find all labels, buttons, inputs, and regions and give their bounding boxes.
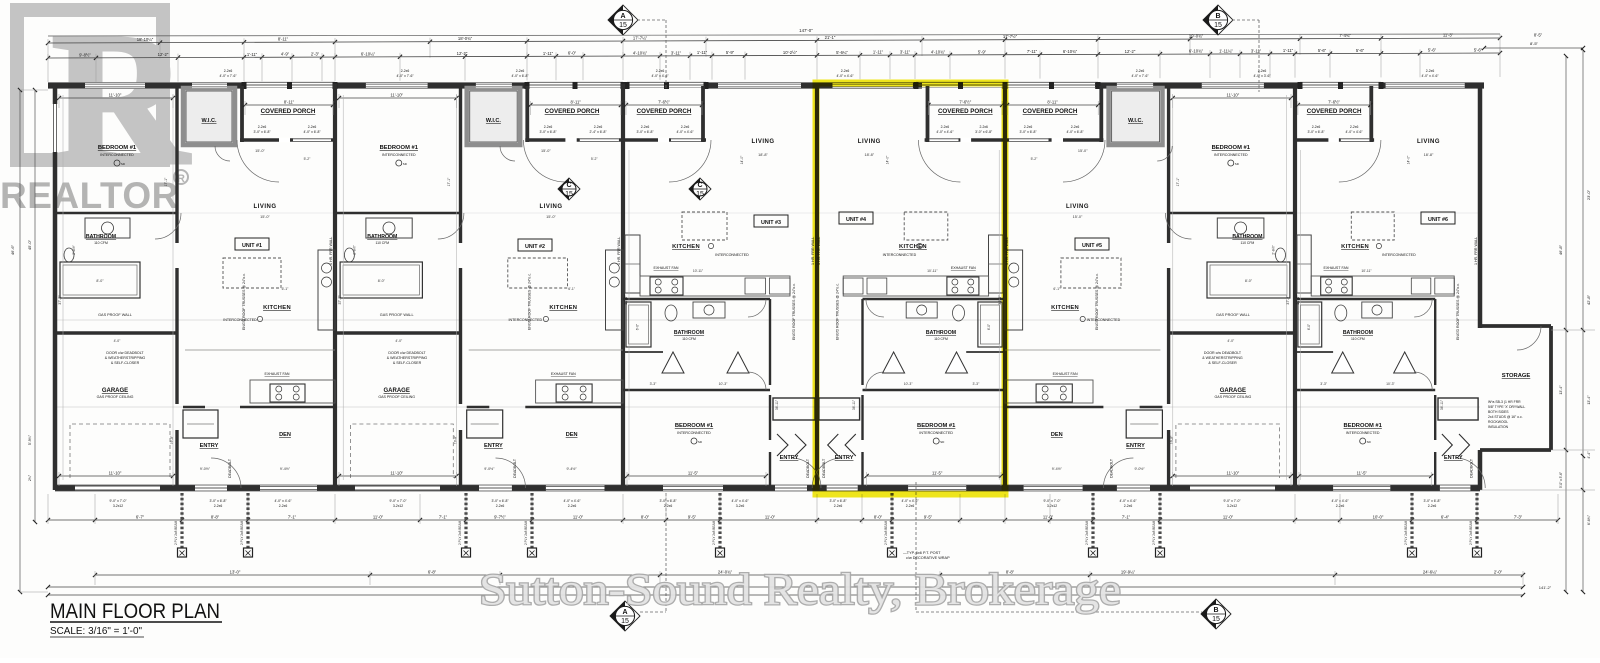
wall: party wall unit4|unit5 [1003, 84, 1007, 491]
svg-text:36'-11": 36'-11" [1440, 399, 1444, 410]
svg-text:8'-5": 8'-5" [1534, 32, 1543, 37]
svg-text:COVERED PORCH: COVERED PORCH [545, 108, 600, 115]
svg-text:9'-0" x 7'-0": 9'-0" x 7'-0" [389, 499, 407, 503]
svg-text:GARAGE: GARAGE [384, 388, 410, 394]
svg-text:13'-4": 13'-4" [1587, 395, 1591, 405]
svg-text:45'-0": 45'-0" [27, 239, 32, 250]
svg-text:2-2x6: 2-2x6 [1428, 504, 1437, 508]
svg-text:110 CFM: 110 CFM [682, 337, 696, 341]
svg-text:ENG'D ROOF TRUSSES @ 24"o.c.: ENG'D ROOF TRUSSES @ 24"o.c. [1095, 273, 1099, 330]
dim: unit1 bedroom width [59, 97, 173, 99]
wall: unit1 garage front wall (gas proof) [55, 331, 177, 334]
svg-text:10'-3": 10'-3" [904, 382, 913, 386]
wall: unit3 porch front wall with door+window [623, 138, 706, 142]
svg-text:11'-10": 11'-10" [390, 471, 403, 476]
svg-text:2-2x6: 2-2x6 [841, 69, 850, 73]
svg-text:3'-0" x 6'-8": 3'-0" x 6'-8" [636, 130, 654, 134]
wall: unit5 porch front wall with door and window [1005, 138, 1103, 142]
svg-text:ENG'D ROOF TRUSSES @ 24"o.c.: ENG'D ROOF TRUSSES @ 24"o.c. [792, 283, 796, 340]
door swing: unit4 rear entry door [812, 458, 842, 488]
svg-text:4'-0" x 4'-6": 4'-0" x 4'-6" [1119, 499, 1137, 503]
section marker A (top) [608, 5, 638, 35]
svg-text:GAS PROOF WALL: GAS PROOF WALL [380, 313, 414, 317]
wall: left exterior [53, 84, 58, 491]
window: unit1 den rear window [260, 485, 317, 490]
svg-text:9'-0½": 9'-0½" [200, 467, 211, 471]
svg-text:4'-0" x 4'-6": 4'-0" x 4'-6" [936, 130, 954, 134]
svg-text:147'-0": 147'-0" [799, 28, 813, 33]
dim: unit2 garage width [339, 475, 457, 477]
svg-text:1 HR. FRR WALL: 1 HR. FRR WALL [617, 237, 621, 265]
fixture: unit5 vanity sink [1217, 218, 1264, 238]
svg-text:LIVING: LIVING [1066, 204, 1089, 210]
svg-text:INTERCONNECTED: INTERCONNECTED [223, 318, 257, 322]
door swing: unit6 front door [1339, 140, 1381, 182]
fixture: unit3 bathtub (vertical at party wall) [626, 302, 651, 347]
svg-text:KITCHEN: KITCHEN [549, 305, 577, 311]
room label: unit5 unit number box [1075, 238, 1109, 250]
svg-text:14'-0": 14'-0" [740, 155, 744, 164]
svg-text:6'-10¼": 6'-10¼" [361, 51, 376, 56]
svg-text:19'-8": 19'-8" [170, 435, 174, 444]
svg-text:B: B [1213, 607, 1218, 614]
svg-text:4'-0" x 4'-6": 4'-0" x 4'-6" [563, 499, 581, 503]
svg-text:2-2x6: 2-2x6 [641, 125, 650, 129]
svg-text:2 PLY 2x8 BEAM: 2 PLY 2x8 BEAM [884, 520, 888, 545]
svg-text:3'-0" x 6'-8": 3'-0" x 6'-8" [253, 130, 271, 134]
closet: unit6 bedroom closets jagged [1438, 398, 1478, 420]
svg-text:4'-10¾": 4'-10¾" [633, 51, 648, 56]
fixture: unit4 kitchen island (dashed) [904, 212, 948, 240]
svg-text:18'-8": 18'-8" [1424, 153, 1434, 157]
dim: right vertical line (outer) [1582, 50, 1584, 592]
dim line B (top) [48, 53, 1500, 58]
svg-text:2-2x6: 2-2x6 [941, 125, 950, 129]
svg-text:3-2x6: 3-2x6 [736, 504, 745, 508]
svg-text:STORAGE: STORAGE [1502, 373, 1531, 379]
svg-text:BEDROOM #1: BEDROOM #1 [675, 423, 714, 429]
svg-text:5'-9¼": 5'-9¼" [28, 434, 32, 445]
svg-text:1'-11": 1'-11" [247, 52, 258, 57]
closet W.I.C. unit1 [183, 88, 235, 145]
post: porch lintel end posts [242, 82, 247, 89]
fixture: unit6 toilet [1335, 305, 1347, 321]
svg-text:2-2x6: 2-2x6 [979, 125, 988, 129]
svg-text:8'-0": 8'-0" [641, 515, 650, 520]
window: unit6 living front window [1386, 83, 1465, 88]
post: porch lintel end posts [625, 82, 630, 89]
svg-text:KITCHEN: KITCHEN [263, 305, 291, 311]
svg-text:11'-0": 11'-0" [1043, 515, 1054, 520]
svg-text:EXHAUST FAN: EXHAUST FAN [1324, 266, 1349, 270]
svg-text:COVERED PORCH: COVERED PORCH [1023, 108, 1078, 115]
svg-text:2-2x6: 2-2x6 [544, 125, 553, 129]
svg-text:10'-3": 10'-3" [719, 382, 728, 386]
svg-text:17'-1": 17'-1" [447, 177, 451, 186]
dim: left vertical line (inner) [34, 90, 36, 522]
fixture: unit3 range [650, 277, 683, 295]
svg-text:2-2x6: 2-2x6 [664, 504, 673, 508]
svg-text:2-2x6: 2-2x6 [1312, 125, 1321, 129]
post: porch lintel end posts [914, 82, 919, 89]
wall: unit5 garage front wall (gas proof) [1169, 331, 1295, 334]
svg-text:7'-3": 7'-3" [1514, 515, 1523, 520]
fixture: unit3 kitchen island (dashed) [682, 212, 727, 240]
svg-text:2'-0": 2'-0" [1494, 570, 1503, 575]
dim: unit4 interior verticals [998, 150, 1000, 480]
svg-text:DEADBOLT: DEADBOLT [228, 458, 232, 478]
svg-text:10'-0": 10'-0" [1373, 515, 1384, 520]
svg-text:8'-11": 8'-11" [1047, 100, 1058, 105]
svg-text:COVERED PORCH: COVERED PORCH [261, 108, 316, 115]
svg-text:5'-9": 5'-9" [978, 49, 987, 54]
svg-text:ENTRY: ENTRY [835, 455, 854, 461]
svg-text:BEDROOM #1: BEDROOM #1 [98, 145, 137, 151]
svg-text:2 PLY 2x8 BEAM: 2 PLY 2x8 BEAM [1469, 520, 1473, 545]
window: unit1 bedroom front window [85, 83, 145, 88]
svg-text:2-2x6: 2-2x6 [214, 504, 223, 508]
fixture: unit4 range [947, 277, 979, 295]
svg-text:9'-8½": 9'-8½" [79, 52, 91, 57]
svg-text:2-2x6: 2-2x6 [594, 125, 603, 129]
wall: unit4 bathroom top wall [863, 298, 1006, 300]
fixture: unit6 kitchen fridge/counter along party wall [1297, 235, 1311, 293]
svg-text:3'-0" x 6'-8": 3'-0" x 6'-8" [1019, 130, 1037, 134]
svg-text:11'-5": 11'-5" [1357, 471, 1368, 476]
dim: unit4 bedroom width [867, 475, 1002, 477]
dim: unit3 porch width [626, 104, 702, 106]
svg-text:6'-0": 6'-0" [568, 51, 577, 56]
svg-text:2-2x6: 2-2x6 [224, 69, 233, 73]
wall: unit6 porch side wall [1369, 86, 1373, 142]
svg-text:15: 15 [619, 22, 627, 29]
svg-text:2-2x6: 2-2x6 [1071, 125, 1080, 129]
svg-text:11'-5": 11'-5" [932, 471, 943, 476]
svg-text:2 PLY 2x8 BEAM: 2 PLY 2x8 BEAM [1404, 520, 1408, 545]
svg-text:4'-0" x 7'-6": 4'-0" x 7'-6" [396, 74, 414, 78]
wall: unit4 bathroom lower partial wall [966, 351, 1005, 353]
svg-text:46'-6": 46'-6" [10, 244, 15, 255]
wall: unit2 porch side [525, 86, 529, 142]
svg-text:7'-1": 7'-1" [1122, 515, 1131, 520]
fixture: unit4 toilet [953, 305, 965, 321]
svg-text:BATHROOM: BATHROOM [367, 234, 397, 240]
svg-text:4'-10¾": 4'-10¾" [931, 49, 946, 54]
svg-text:11'-0": 11'-0" [1223, 515, 1234, 520]
svg-text:7'-6½": 7'-6½" [1328, 100, 1340, 105]
svg-text:A: A [620, 13, 625, 20]
watermark: REALTOR R logo (gray, under drawing) [17, 0, 190, 203]
svg-text:2-2x6: 2-2x6 [1124, 504, 1133, 508]
svg-text:6'-10¾": 6'-10¾" [1189, 49, 1204, 54]
svg-text:5'-6": 5'-6" [1318, 48, 1327, 53]
svg-text:4'-0": 4'-0" [114, 339, 122, 343]
svg-text:UNIT #6: UNIT #6 [1428, 217, 1448, 223]
svg-text:11'-5": 11'-5" [688, 471, 699, 476]
svg-text:13'-4": 13'-4" [1559, 385, 1563, 395]
section marker A (bottom) [610, 601, 640, 631]
svg-text:2 PLY 2x8 BEAM: 2 PLY 2x8 BEAM [174, 520, 178, 545]
svg-text:15'-0": 15'-0" [260, 215, 270, 219]
section marker C (unit2) [558, 178, 580, 200]
svg-text:3'-3": 3'-3" [650, 382, 658, 386]
wall: building front (top) exterior segments [48, 83, 244, 89]
section marker B (top) [1203, 5, 1233, 35]
svg-text:5'-2": 5'-2" [591, 157, 599, 161]
svg-text:REALTOR: REALTOR [0, 175, 179, 216]
svg-text:5'-6¼": 5'-6¼" [836, 50, 848, 55]
svg-text:17'-7½": 17'-7½" [1003, 34, 1018, 39]
fixture: unit2 vanity sink [366, 218, 412, 238]
svg-text:8'-0": 8'-0" [378, 279, 386, 283]
svg-text:9'-5": 9'-5" [688, 515, 697, 520]
wall: unit1 bathroom top [55, 212, 177, 215]
svg-text:2-2x6: 2-2x6 [568, 504, 577, 508]
svg-text:ENTRY: ENTRY [780, 455, 799, 461]
wall: unit3 entry wall [769, 452, 771, 486]
window: unit2 W.I.C. front window [476, 83, 512, 88]
wall: unit1 den/kitchen wall [183, 406, 205, 409]
svg-text:Sutton-Sound Realty, Brokerage: Sutton-Sound Realty, Brokerage [479, 565, 1121, 614]
svg-text:36'-0": 36'-0" [624, 295, 628, 305]
svg-text:2 PLY 2x8 BEAM: 2 PLY 2x8 BEAM [240, 520, 244, 545]
svg-text:7'-6½": 7'-6½" [658, 100, 670, 105]
svg-text:10'-11": 10'-11" [693, 269, 704, 273]
door swing: unit2 front entry to living [523, 140, 565, 182]
room label: unit3 unit number box [754, 215, 788, 227]
svg-text:BATHROOM: BATHROOM [86, 234, 116, 240]
closet: unit1 entry closet [183, 410, 218, 438]
svg-text:B: B [1215, 13, 1220, 20]
svg-text:EXHAUST FAN: EXHAUST FAN [654, 266, 679, 270]
svg-text:110 CFM: 110 CFM [1351, 337, 1365, 341]
svg-text:3'-11": 3'-11" [1251, 48, 1262, 53]
svg-text:4'-9": 4'-9" [281, 52, 290, 57]
svg-text:KITCHEN: KITCHEN [672, 244, 700, 250]
svg-text:BEDROOM #1: BEDROOM #1 [380, 145, 419, 151]
svg-text:GARAGE: GARAGE [102, 388, 128, 394]
dim line E (long bottom) [48, 586, 1523, 588]
fixture: unit1 kitchen counter along party wall [318, 250, 335, 330]
closet: unit3 bedroom closets jagged [773, 398, 815, 420]
wall: party wall unit5|unit6 [1293, 84, 1297, 491]
svg-text:10'-11": 10'-11" [1361, 269, 1372, 273]
svg-text:3'-0" x 6'-8": 3'-0" x 6'-8" [659, 499, 677, 503]
fixture: unit5 kitchen range and counter [1036, 384, 1072, 402]
svg-text:3'-0" x 6'-8": 3'-0" x 6'-8" [1307, 130, 1325, 134]
svg-text:8'-8": 8'-8" [211, 515, 220, 520]
svg-text:5'-2": 5'-2" [1031, 157, 1039, 161]
svg-text:2'-8½": 2'-8½" [72, 244, 76, 254]
door swing: unit3 rear entry door [791, 458, 821, 488]
wall: unit4 entry wall [861, 452, 863, 486]
svg-text:KITCHEN: KITCHEN [899, 244, 927, 250]
slab edge: unit1 garage apron dashed [70, 424, 170, 478]
window: unit1 bedroom side window [52, 104, 57, 152]
door swing: unit1 rear entry door [211, 458, 241, 488]
svg-text:INTERCONNECTED: INTERCONNECTED [1382, 253, 1416, 257]
fixture: unit5 toilet [1276, 248, 1286, 262]
fixture: unit1 toilet [64, 248, 74, 262]
room label: unit6 unit number box [1421, 212, 1455, 224]
svg-text:23'-0": 23'-0" [1586, 189, 1591, 200]
svg-text:13'-0": 13'-0" [230, 570, 241, 575]
svg-text:6'-7": 6'-7" [136, 515, 145, 520]
svg-text:DEN: DEN [566, 432, 578, 438]
svg-text:1 HR. FRR WALL: 1 HR. FRR WALL [329, 237, 333, 265]
dim: unit1 garage width [59, 475, 173, 477]
svg-text:BOTH SIDES: BOTH SIDES [1488, 410, 1509, 414]
wall: unit5 den/kitchen wall [1140, 406, 1163, 409]
svg-text:LIVING: LIVING [858, 139, 881, 145]
svg-text:ENTRY: ENTRY [1444, 455, 1463, 461]
svg-text:BEDROOM #1: BEDROOM #1 [1212, 145, 1251, 151]
wall: unit2 garage front wall (gas proof) [335, 331, 461, 334]
svg-text:2x4 STUDS @ 16" o.c.: 2x4 STUDS @ 16" o.c. [1488, 415, 1523, 419]
dim: unit2 interior vertical [342, 95, 344, 480]
wall: party wall unit2|unit3 [621, 84, 625, 491]
svg-text:INTERCONNECTED: INTERCONNECTED [100, 153, 134, 157]
svg-text:7'-1": 7'-1" [288, 515, 297, 520]
svg-text:2-2x6: 2-2x6 [1136, 69, 1145, 73]
door swing: unit2 rear entry door [496, 458, 526, 488]
svg-text:4'-0" x 4'-6": 4'-0" x 4'-6" [1331, 499, 1349, 503]
window: unit2 den rear window [546, 485, 605, 490]
svg-text:3'-0" x 6'-8": 3'-0" x 6'-8" [209, 499, 227, 503]
svg-text:2'-8½": 2'-8½" [353, 244, 357, 254]
svg-text:9'-0" x 7'-0": 9'-0" x 7'-0" [109, 499, 127, 503]
fixture: unit2 kitchen range and counter [556, 384, 592, 402]
svg-text:5/8" TYPE 'X' DRYWALL: 5/8" TYPE 'X' DRYWALL [1488, 405, 1525, 409]
svg-text:DEN: DEN [1051, 432, 1063, 438]
wall: unit2 bathroom top [335, 212, 461, 215]
svg-text:15'-0": 15'-0" [1073, 215, 1083, 219]
svg-text:C: C [697, 182, 702, 189]
door swing: unit2 W.I.C. door [500, 146, 515, 161]
wall: party wall unit1|unit2 [333, 84, 337, 491]
door swing: storage door [1517, 326, 1541, 350]
room label: unit2 unit number box [518, 239, 552, 251]
svg-text:ENTRY: ENTRY [1126, 443, 1145, 449]
svg-text:15: 15 [696, 191, 704, 198]
svg-text:DEADBOLT: DEADBOLT [822, 458, 826, 478]
fixture: unit6 kitchen island (dashed) [1351, 212, 1394, 240]
wall: right exterior [1478, 84, 1483, 329]
svg-text:9'-4½": 9'-4½" [1052, 467, 1063, 471]
svg-text:DOOR c/w DEADBOLT: DOOR c/w DEADBOLT [106, 351, 144, 355]
svg-text:36'-0": 36'-0" [1296, 295, 1300, 305]
svg-text:2'-3": 2'-3" [311, 52, 320, 57]
dim: unit2 bedroom width [339, 97, 457, 99]
svg-text:15'-0": 15'-0" [541, 149, 551, 153]
window: unit4 bedroom rear window [908, 485, 966, 490]
svg-text:2 PLY 2x8 BEAM: 2 PLY 2x8 BEAM [458, 520, 462, 545]
svg-text:EXHAUST FAN: EXHAUST FAN [951, 266, 976, 270]
wall: unit2 porch front wall with door and window [525, 138, 623, 142]
door swing: unit6 rear entry door [1455, 458, 1485, 488]
svg-text:COVERED PORCH: COVERED PORCH [637, 108, 692, 115]
window: unit3 bedroom rear window [663, 485, 723, 490]
svg-text:DEADBOLT: DEADBOLT [1110, 458, 1114, 478]
wall: unit6 porch front wall with door+window [1295, 138, 1374, 142]
svg-text:7'-1": 7'-1" [439, 515, 448, 520]
svg-text:3'-0" x 6'-8": 3'-0" x 6'-8" [1423, 499, 1441, 503]
wall: unit5 porch side [1099, 86, 1103, 142]
fixture: unit1 kitchen range and counter [270, 384, 305, 402]
svg-text:INTERCONNECTED: INTERCONNECTED [677, 431, 711, 435]
svg-text:LIVING: LIVING [1417, 139, 1440, 145]
svg-text:DOOR c/w DEADBOLT: DOOR c/w DEADBOLT [1204, 351, 1242, 355]
svg-text:36'-11": 36'-11" [852, 399, 856, 410]
svg-text:c/w DECORATIVE WRAP: c/w DECORATIVE WRAP [906, 556, 950, 560]
fixture: unit4 kitchen fridge/counter along party wall [989, 235, 1004, 293]
svg-text:9'-0½": 9'-0½" [1135, 467, 1146, 471]
symbol: unit1 smoke detector [114, 160, 120, 166]
svg-text:COVERED PORCH: COVERED PORCH [1307, 108, 1362, 115]
window: unit4 living front window [833, 83, 913, 88]
fixture: unit2 bathtub [340, 262, 422, 298]
svg-text:1 HR. FRR WALL: 1 HR. FRR WALL [1474, 237, 1478, 265]
svg-text:GAS PROOF WALL: GAS PROOF WALL [98, 313, 132, 317]
svg-text:4'-0" x 4'-6": 4'-0" x 4'-6" [901, 499, 919, 503]
svg-text:4'-0" x 4'-6": 4'-0" x 4'-6" [676, 130, 694, 134]
svg-text:15: 15 [621, 618, 629, 625]
wall: building rear (bottom) exterior [55, 485, 1480, 491]
svg-text:2-2x6: 2-2x6 [681, 125, 690, 129]
window: unit1 W.I.C. front window [192, 83, 227, 88]
door swing: unit1 front entry to living [237, 140, 279, 182]
svg-text:ROCKWOOL: ROCKWOOL [1488, 420, 1508, 424]
svg-text:2'-8½": 2'-8½" [1271, 244, 1275, 254]
wall: unit5 bedroom/living divider [1167, 88, 1170, 243]
dim line F (long bottom 2) [48, 594, 1523, 596]
wall: unit4 porch side wall [926, 86, 930, 142]
svg-text:EXHAUST FAN: EXHAUST FAN [551, 372, 576, 376]
svg-text:3-2x12: 3-2x12 [1227, 504, 1237, 508]
svg-text:& WEATHERSTRIPPING: & WEATHERSTRIPPING [105, 356, 146, 360]
svg-text:GAS PROOF CEILING: GAS PROOF CEILING [97, 395, 134, 399]
svg-text:UNIT #4: UNIT #4 [846, 217, 866, 223]
section line B (top, dashed) [1232, 19, 1259, 21]
svg-text:2-2x6: 2-2x6 [1426, 69, 1435, 73]
svg-text:11'-3": 11'-3" [1443, 33, 1454, 38]
wall: unit2 den/kitchen wall [467, 406, 490, 409]
svg-text:DEADBOLT: DEADBOLT [513, 458, 517, 478]
svg-text:W.I.C.: W.I.C. [202, 118, 217, 124]
svg-text:3'-0" x 6'-8": 3'-0" x 6'-8" [539, 130, 557, 134]
window: unit6 bedroom rear window [1333, 485, 1390, 490]
svg-text:11'-10": 11'-10" [390, 93, 403, 98]
svg-text:SCALE: 3/16" = 1'-0": SCALE: 3/16" = 1'-0" [50, 626, 142, 637]
svg-text:LIVING: LIVING [253, 204, 276, 210]
door leafs: unit6 bathroom/hall doors (triangles) [1332, 352, 1354, 373]
door swing: unit4 bathroom door [866, 299, 884, 317]
svg-text:4'-0": 4'-0" [1227, 339, 1235, 343]
svg-text:4'-0" x 4'-6": 4'-0" x 4'-6" [1346, 130, 1364, 134]
section line A (top, dashed) [637, 19, 666, 21]
door swing: unit3 bathroom door [748, 299, 766, 317]
wall: unit4 porch front wall with door+window [925, 138, 1005, 142]
fixture: unit1 kitchen island (dashed) [223, 258, 281, 288]
svg-text:4'-0" x 6'-8": 4'-0" x 6'-8" [511, 74, 529, 78]
fixture: unit1 vanity sink [85, 218, 130, 238]
fixture: unit6 vanity [1362, 302, 1393, 318]
svg-text:18'-8": 18'-8" [864, 153, 874, 157]
closet: unit5 entry closet [1126, 410, 1162, 438]
fixture: unit2 kitchen counter along party wall [606, 250, 624, 330]
svg-text:7'-11": 7'-11" [1027, 49, 1038, 54]
window: unit5 W.I.C. front window [1117, 83, 1153, 88]
